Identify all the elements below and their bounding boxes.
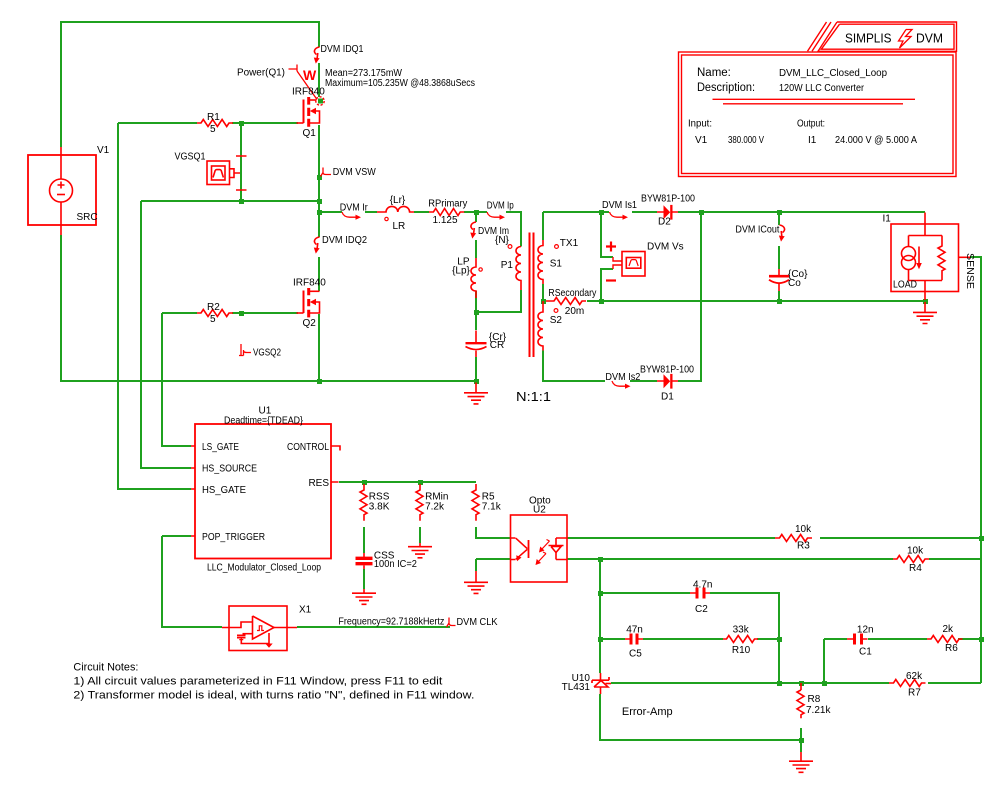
svg-text:X1: X1 bbox=[299, 605, 312, 616]
svg-text:380.000 V: 380.000 V bbox=[728, 135, 764, 146]
svg-text:I1: I1 bbox=[883, 214, 892, 225]
svg-text:DVM ICout: DVM ICout bbox=[735, 225, 779, 236]
svg-text:LS_GATE: LS_GATE bbox=[202, 442, 239, 453]
svg-text:V1: V1 bbox=[97, 145, 110, 156]
svg-text:IRF840: IRF840 bbox=[293, 278, 326, 289]
svg-text:U2: U2 bbox=[533, 505, 546, 516]
svg-text:Circuit Notes:: Circuit Notes: bbox=[73, 662, 138, 674]
svg-text:12n: 12n bbox=[857, 625, 874, 636]
svg-text:C2: C2 bbox=[695, 604, 708, 615]
svg-text:1.125: 1.125 bbox=[433, 215, 458, 226]
svg-text:7.1k: 7.1k bbox=[482, 502, 502, 513]
svg-text:R6: R6 bbox=[945, 643, 958, 654]
svg-text:5: 5 bbox=[210, 124, 216, 135]
svg-text:DVM Is2: DVM Is2 bbox=[605, 372, 640, 383]
svg-text:7.21k: 7.21k bbox=[806, 705, 831, 716]
svg-text:LR: LR bbox=[393, 221, 406, 232]
svg-text:SENSE: SENSE bbox=[964, 253, 975, 289]
svg-text:TL431: TL431 bbox=[562, 682, 591, 693]
svg-text:BYW81P-100: BYW81P-100 bbox=[641, 194, 695, 205]
svg-text:HS_SOURCE: HS_SOURCE bbox=[202, 464, 257, 475]
svg-text:DVM Is1: DVM Is1 bbox=[602, 200, 637, 211]
svg-text:DVM VSW: DVM VSW bbox=[333, 167, 377, 178]
svg-text:Output:: Output: bbox=[797, 119, 825, 130]
svg-text:Maximum=105.235W @48.3868uSecs: Maximum=105.235W @48.3868uSecs bbox=[325, 78, 475, 89]
svg-text:DVM IDQ1: DVM IDQ1 bbox=[321, 44, 364, 55]
svg-text:VGSQ1: VGSQ1 bbox=[175, 152, 206, 163]
svg-text:120W LLC Converter: 120W LLC Converter bbox=[779, 83, 865, 94]
svg-text:DVM: DVM bbox=[916, 32, 943, 46]
svg-text:TX1: TX1 bbox=[560, 238, 579, 249]
svg-text:Q1: Q1 bbox=[303, 128, 317, 139]
svg-text:IRF840: IRF840 bbox=[292, 87, 325, 98]
svg-text:VGSQ2: VGSQ2 bbox=[253, 348, 281, 359]
svg-text:R4: R4 bbox=[909, 563, 922, 574]
svg-text:24.000 V @ 5.000 A: 24.000 V @ 5.000 A bbox=[835, 135, 917, 146]
svg-text:W: W bbox=[303, 67, 317, 83]
svg-text:R2: R2 bbox=[207, 302, 220, 313]
svg-text:DVM Vs: DVM Vs bbox=[647, 242, 684, 253]
svg-text:POP_TRIGGER: POP_TRIGGER bbox=[202, 532, 265, 543]
svg-text:DVM_LLC_Closed_Loop: DVM_LLC_Closed_Loop bbox=[779, 68, 887, 79]
svg-text:CR: CR bbox=[490, 340, 504, 351]
svg-text:RPrimary: RPrimary bbox=[428, 199, 467, 210]
svg-text:R7: R7 bbox=[908, 688, 921, 699]
svg-text:1) All circuit values paramete: 1) All circuit values parameterized in F… bbox=[73, 676, 442, 688]
svg-text:62k: 62k bbox=[906, 671, 923, 682]
svg-text:D2: D2 bbox=[658, 217, 671, 228]
svg-text:4.7n: 4.7n bbox=[693, 580, 712, 591]
svg-text:BYW81P-100: BYW81P-100 bbox=[640, 365, 694, 376]
svg-text:LLC_Modulator_Closed_Loop: LLC_Modulator_Closed_Loop bbox=[207, 563, 321, 574]
svg-text:S1: S1 bbox=[550, 259, 563, 270]
svg-text:20m: 20m bbox=[565, 306, 584, 317]
svg-text:DVM CLK: DVM CLK bbox=[457, 617, 498, 628]
svg-text:CONTROL: CONTROL bbox=[287, 442, 329, 453]
svg-text:DVM IDQ2: DVM IDQ2 bbox=[322, 235, 367, 246]
svg-text:RES: RES bbox=[308, 478, 329, 489]
svg-text:2k: 2k bbox=[943, 624, 955, 635]
svg-text:10k: 10k bbox=[907, 546, 924, 557]
svg-text:10k: 10k bbox=[795, 524, 812, 535]
svg-text:Description:: Description: bbox=[697, 82, 755, 94]
svg-text:47n: 47n bbox=[626, 625, 643, 636]
svg-text:V1: V1 bbox=[695, 135, 708, 146]
svg-text:Deadtime={TDEAD}: Deadtime={TDEAD} bbox=[224, 416, 304, 427]
svg-text:Input:: Input: bbox=[688, 119, 712, 130]
svg-text:LOAD: LOAD bbox=[893, 280, 917, 291]
svg-text:R1: R1 bbox=[207, 112, 220, 123]
svg-text:7.2k: 7.2k bbox=[425, 502, 445, 513]
svg-text:{Lr}: {Lr} bbox=[390, 195, 406, 206]
svg-text:DVM Ip: DVM Ip bbox=[487, 201, 514, 212]
svg-text:I1: I1 bbox=[808, 135, 817, 146]
svg-text:S2: S2 bbox=[550, 315, 563, 326]
svg-text:33k: 33k bbox=[733, 625, 750, 636]
svg-text:HS_GATE: HS_GATE bbox=[202, 485, 246, 496]
svg-text:R8: R8 bbox=[808, 694, 821, 705]
svg-text:SRC: SRC bbox=[77, 212, 98, 223]
svg-text:100n IC=2: 100n IC=2 bbox=[374, 559, 417, 570]
svg-text:Name:: Name: bbox=[697, 67, 731, 79]
svg-text:C5: C5 bbox=[629, 649, 642, 660]
svg-text:{Lp}: {Lp} bbox=[452, 265, 470, 276]
svg-text:Error-Amp: Error-Amp bbox=[622, 706, 673, 718]
svg-text:3.8K: 3.8K bbox=[369, 502, 390, 513]
svg-text:N:1:1: N:1:1 bbox=[516, 389, 551, 404]
svg-text:RSecondary: RSecondary bbox=[548, 288, 596, 299]
svg-text:R3: R3 bbox=[797, 541, 810, 552]
svg-text:C1: C1 bbox=[859, 647, 872, 658]
svg-text:{N}: {N} bbox=[495, 235, 510, 246]
svg-text:Power(Q1): Power(Q1) bbox=[237, 68, 285, 79]
svg-text:2) Transformer model is ideal,: 2) Transformer model is ideal, with turn… bbox=[73, 690, 474, 702]
svg-text:P1: P1 bbox=[501, 260, 514, 271]
svg-text:5: 5 bbox=[210, 314, 216, 325]
svg-text:Co: Co bbox=[788, 278, 801, 289]
svg-text:R10: R10 bbox=[732, 645, 751, 656]
svg-text:Frequency=92.7188kHertz: Frequency=92.7188kHertz bbox=[338, 617, 444, 628]
svg-text:D1: D1 bbox=[661, 392, 674, 403]
svg-text:DVM Ir: DVM Ir bbox=[340, 203, 369, 214]
svg-text:SIMPLIS: SIMPLIS bbox=[845, 32, 892, 46]
svg-text:Q2: Q2 bbox=[303, 318, 317, 329]
